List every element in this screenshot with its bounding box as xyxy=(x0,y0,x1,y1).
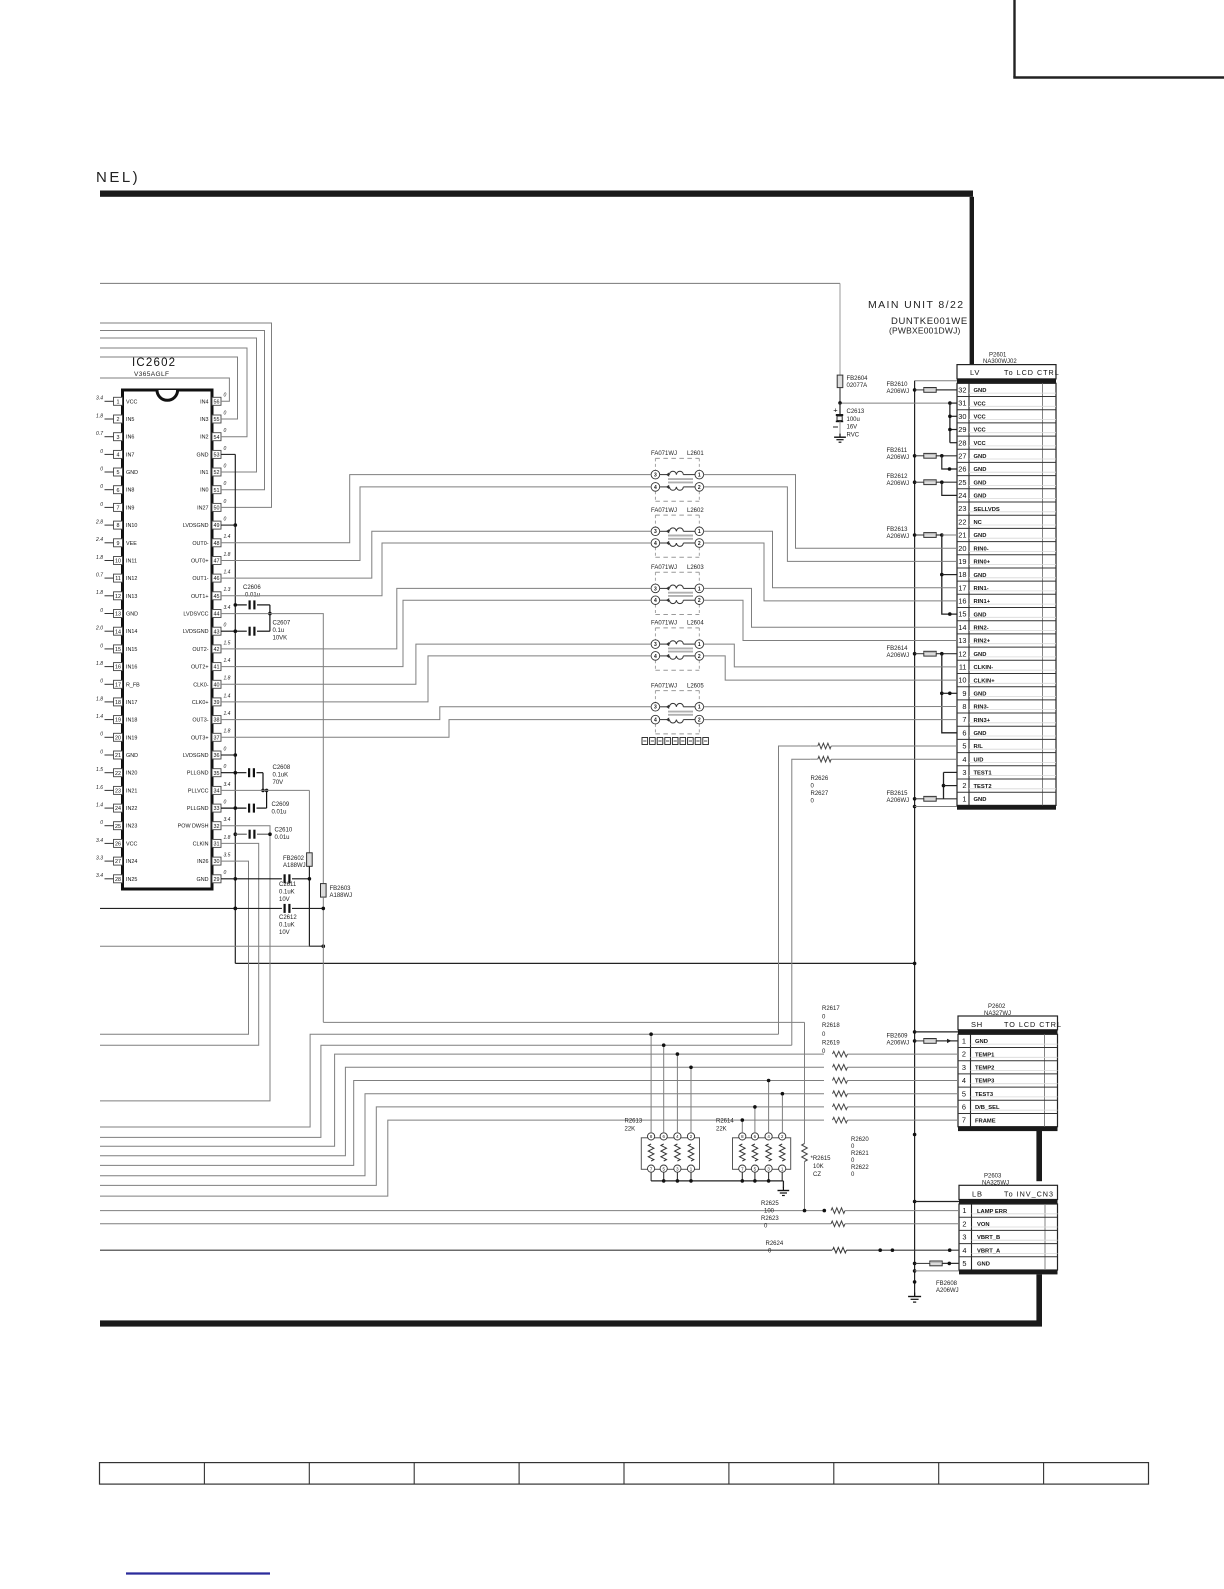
svg-text:10: 10 xyxy=(958,676,966,685)
svg-text:RIN3+: RIN3+ xyxy=(974,718,991,724)
svg-text:RIN2+: RIN2+ xyxy=(974,639,991,645)
svg-text:0: 0 xyxy=(224,463,227,469)
svg-text:TEST3: TEST3 xyxy=(975,1092,994,1098)
svg-text:10VK: 10VK xyxy=(273,636,288,642)
svg-text:RVC: RVC xyxy=(847,432,860,438)
svg-text:LVDSGND: LVDSGND xyxy=(183,629,209,635)
svg-text:24: 24 xyxy=(115,806,121,812)
svg-text:LVDSGND: LVDSGND xyxy=(183,523,209,529)
svg-text:L2603: L2603 xyxy=(687,565,704,571)
svg-text:44: 44 xyxy=(214,612,220,618)
svg-text:MAIN UNIT 8/22: MAIN UNIT 8/22 xyxy=(868,299,964,311)
svg-text:6: 6 xyxy=(962,1103,966,1112)
svg-text:2.0: 2.0 xyxy=(95,626,103,632)
svg-text:4: 4 xyxy=(654,541,657,547)
svg-text:R2621: R2621 xyxy=(851,1151,869,1157)
svg-text:GND: GND xyxy=(126,612,138,618)
svg-text:VCC: VCC xyxy=(974,428,987,434)
svg-text:7: 7 xyxy=(962,1116,966,1125)
svg-text:IN18: IN18 xyxy=(126,718,137,724)
svg-text:FB2612: FB2612 xyxy=(887,474,909,480)
svg-text:A206WJ: A206WJ xyxy=(887,798,910,804)
svg-text:4: 4 xyxy=(654,718,657,724)
svg-text:FB2610: FB2610 xyxy=(887,382,909,388)
svg-text:1.8: 1.8 xyxy=(96,555,103,561)
svg-text:IC2602: IC2602 xyxy=(132,357,176,369)
svg-text:70V: 70V xyxy=(273,780,284,786)
svg-text:2: 2 xyxy=(698,598,701,604)
svg-text:2: 2 xyxy=(962,1219,966,1228)
svg-text:IN25: IN25 xyxy=(126,877,137,883)
svg-text:NEL): NEL) xyxy=(96,169,140,186)
svg-text:IN0: IN0 xyxy=(200,488,208,494)
svg-text:27: 27 xyxy=(115,859,121,865)
svg-text:IN3: IN3 xyxy=(200,417,208,423)
svg-text:36: 36 xyxy=(214,753,220,759)
svg-text:IN17: IN17 xyxy=(126,700,137,706)
svg-text:14: 14 xyxy=(115,629,121,635)
svg-text:3.4: 3.4 xyxy=(96,873,103,879)
svg-text:NC: NC xyxy=(974,520,983,526)
svg-text:0: 0 xyxy=(100,449,103,455)
svg-text:IN6: IN6 xyxy=(126,435,134,441)
svg-text:C2609: C2609 xyxy=(272,802,290,808)
svg-text:4: 4 xyxy=(654,654,657,660)
svg-text:10V: 10V xyxy=(279,930,290,936)
svg-text:R2613: R2613 xyxy=(625,1119,643,1125)
svg-text:1: 1 xyxy=(698,586,701,592)
svg-text:LB: LB xyxy=(972,1189,983,1198)
svg-text:7: 7 xyxy=(962,715,966,724)
svg-text:IN14: IN14 xyxy=(126,629,137,635)
svg-text:OUT3-: OUT3- xyxy=(192,718,208,724)
svg-text:IN20: IN20 xyxy=(126,771,137,777)
svg-text:A188WJ: A188WJ xyxy=(283,863,306,869)
svg-text:RIN0-: RIN0- xyxy=(974,546,989,552)
svg-text:R2620: R2620 xyxy=(851,1137,869,1143)
svg-text:C2611: C2611 xyxy=(279,882,297,888)
svg-text:OUT0+: OUT0+ xyxy=(191,559,209,565)
svg-text:43: 43 xyxy=(214,629,220,635)
svg-text:2: 2 xyxy=(962,781,966,790)
svg-text:1.5: 1.5 xyxy=(224,640,231,646)
svg-text:PLLGND: PLLGND xyxy=(187,771,209,777)
svg-text:FB2611: FB2611 xyxy=(887,448,908,454)
svg-text:1.8: 1.8 xyxy=(224,676,231,682)
svg-text:38: 38 xyxy=(214,718,220,724)
svg-text:GND: GND xyxy=(974,494,987,500)
svg-text:FA071WJ: FA071WJ xyxy=(651,621,677,627)
svg-text:0: 0 xyxy=(100,820,103,826)
svg-text:TEST1: TEST1 xyxy=(974,771,993,777)
svg-text:0: 0 xyxy=(224,393,227,399)
svg-text:R2626: R2626 xyxy=(811,776,829,782)
svg-text:20: 20 xyxy=(958,544,966,553)
svg-text:53: 53 xyxy=(214,453,220,459)
svg-text:30: 30 xyxy=(958,412,966,421)
svg-text:GND: GND xyxy=(974,692,987,698)
svg-text:POW DWSH: POW DWSH xyxy=(178,824,209,830)
svg-text:0: 0 xyxy=(224,481,227,487)
svg-text:5: 5 xyxy=(962,1259,966,1268)
svg-text:VON: VON xyxy=(977,1222,990,1228)
svg-text:1.8: 1.8 xyxy=(224,835,231,841)
svg-text:54: 54 xyxy=(214,435,220,441)
svg-text:45: 45 xyxy=(214,594,220,600)
svg-text:0: 0 xyxy=(100,643,103,649)
svg-text:0.7: 0.7 xyxy=(96,431,103,437)
svg-text:0.1uK: 0.1uK xyxy=(279,890,295,896)
svg-text:FA071WJ: FA071WJ xyxy=(651,565,677,571)
svg-text:+: + xyxy=(833,406,838,415)
svg-text:1.8: 1.8 xyxy=(224,552,231,558)
svg-text:GND: GND xyxy=(974,612,987,618)
svg-text:46: 46 xyxy=(214,576,220,582)
svg-text:GND: GND xyxy=(974,480,987,486)
svg-text:25: 25 xyxy=(958,478,966,487)
svg-text:2: 2 xyxy=(698,541,701,547)
svg-text:1: 1 xyxy=(698,529,701,535)
svg-text:R2618: R2618 xyxy=(822,1023,840,1029)
svg-text:0: 0 xyxy=(224,446,227,452)
svg-text:L2601: L2601 xyxy=(687,451,704,457)
svg-text:3: 3 xyxy=(962,1233,966,1242)
svg-text:3.4: 3.4 xyxy=(96,396,103,402)
svg-text:25: 25 xyxy=(115,824,121,830)
svg-text:C2608: C2608 xyxy=(273,765,291,771)
svg-text:FB2615: FB2615 xyxy=(887,791,909,797)
svg-text:39: 39 xyxy=(214,700,220,706)
svg-text:IN9: IN9 xyxy=(126,505,134,511)
svg-text:IN19: IN19 xyxy=(126,735,137,741)
svg-text:24: 24 xyxy=(958,491,966,500)
svg-text:0: 0 xyxy=(224,623,227,629)
svg-text:0: 0 xyxy=(224,800,227,806)
svg-text:VBRT_B: VBRT_B xyxy=(977,1235,1000,1241)
svg-text:C2610: C2610 xyxy=(275,828,293,834)
svg-text:4: 4 xyxy=(962,1076,966,1085)
svg-text:A206WJ: A206WJ xyxy=(887,534,910,540)
svg-text:3.5: 3.5 xyxy=(224,853,231,859)
svg-text:0.1uK: 0.1uK xyxy=(273,773,289,779)
svg-text:*R2615: *R2615 xyxy=(811,1156,832,1162)
svg-text:48: 48 xyxy=(214,541,220,547)
svg-text:23: 23 xyxy=(958,504,966,513)
svg-text:L2605: L2605 xyxy=(687,683,704,689)
svg-text:0.1uK: 0.1uK xyxy=(279,923,295,929)
svg-text:1.3: 1.3 xyxy=(224,587,231,593)
svg-text:GND: GND xyxy=(974,454,987,460)
svg-text:0: 0 xyxy=(224,746,227,752)
svg-text:02077A: 02077A xyxy=(847,383,868,389)
svg-text:C2612: C2612 xyxy=(279,915,297,921)
svg-text:CLKIN+: CLKIN+ xyxy=(974,678,996,684)
svg-text:IN7: IN7 xyxy=(126,452,134,458)
svg-text:IN8: IN8 xyxy=(126,488,134,494)
svg-text:IN13: IN13 xyxy=(126,594,137,600)
svg-text:To INV_CN3: To INV_CN3 xyxy=(1004,1189,1054,1198)
svg-text:6: 6 xyxy=(962,728,966,737)
svg-text:20: 20 xyxy=(115,735,121,741)
svg-text:P2603: P2603 xyxy=(984,1174,1002,1180)
svg-text:34: 34 xyxy=(214,789,220,795)
svg-text:17: 17 xyxy=(958,583,966,592)
svg-text:P2601: P2601 xyxy=(989,353,1007,359)
svg-text:SELLVDS: SELLVDS xyxy=(974,507,1000,513)
svg-text:R2617: R2617 xyxy=(822,1006,840,1012)
svg-text:5: 5 xyxy=(962,742,966,751)
svg-text:GND: GND xyxy=(974,573,987,579)
svg-text:1.4: 1.4 xyxy=(224,693,231,699)
svg-text:40: 40 xyxy=(214,682,220,688)
svg-text:7: 7 xyxy=(117,506,120,512)
svg-text:VBRT_A: VBRT_A xyxy=(977,1248,1001,1254)
svg-text:5: 5 xyxy=(117,470,120,476)
svg-text:FRAME: FRAME xyxy=(975,1118,996,1124)
svg-text:R2624: R2624 xyxy=(766,1241,784,1247)
svg-text:L2602: L2602 xyxy=(687,508,704,514)
svg-text:TEMP2: TEMP2 xyxy=(975,1066,994,1072)
svg-text:VEE: VEE xyxy=(126,541,137,547)
svg-text:LV: LV xyxy=(970,368,980,377)
svg-text:9: 9 xyxy=(962,689,966,698)
svg-text:9: 9 xyxy=(117,541,120,547)
svg-text:VCC: VCC xyxy=(126,399,137,405)
svg-text:A206WJ: A206WJ xyxy=(887,1041,910,1047)
svg-text:U/D: U/D xyxy=(974,757,984,763)
svg-text:OUT0-: OUT0- xyxy=(192,541,208,547)
svg-text:L2604: L2604 xyxy=(687,621,704,627)
svg-text:2: 2 xyxy=(698,485,701,491)
svg-text:GND: GND xyxy=(977,1262,990,1268)
svg-text:OUT3+: OUT3+ xyxy=(191,735,209,741)
svg-text:PLLVCC: PLLVCC xyxy=(188,788,209,794)
svg-text:FB2614: FB2614 xyxy=(887,646,909,652)
svg-text:14: 14 xyxy=(958,623,966,632)
svg-text:18: 18 xyxy=(958,570,966,579)
svg-text:1: 1 xyxy=(962,794,966,803)
svg-text:1.8: 1.8 xyxy=(224,729,231,735)
svg-text:4: 4 xyxy=(117,453,120,459)
svg-text:1: 1 xyxy=(117,399,120,405)
svg-text:11: 11 xyxy=(959,663,967,672)
svg-text:6: 6 xyxy=(117,488,120,494)
svg-text:R2614: R2614 xyxy=(716,1119,734,1125)
svg-text:0: 0 xyxy=(100,466,103,472)
svg-text:IN5: IN5 xyxy=(126,417,134,423)
svg-text:0.01u: 0.01u xyxy=(275,835,290,841)
svg-text:FA071WJ: FA071WJ xyxy=(651,451,677,457)
svg-text:27: 27 xyxy=(958,451,966,460)
svg-text:1.4: 1.4 xyxy=(224,570,231,576)
svg-text:15: 15 xyxy=(958,610,966,619)
svg-text:A206WJ: A206WJ xyxy=(887,653,910,659)
svg-text:OUT2+: OUT2+ xyxy=(191,665,209,671)
svg-text:55: 55 xyxy=(214,417,220,423)
svg-text:3.4: 3.4 xyxy=(96,838,103,844)
svg-text:VCC: VCC xyxy=(126,841,137,847)
svg-text:LAMP ERR: LAMP ERR xyxy=(977,1209,1008,1215)
svg-text:3: 3 xyxy=(654,473,657,479)
svg-text:FB2603: FB2603 xyxy=(330,886,352,892)
svg-text:0: 0 xyxy=(224,870,227,876)
svg-text:0.1u: 0.1u xyxy=(273,628,285,634)
svg-text:R_FB: R_FB xyxy=(126,682,140,688)
svg-text:32: 32 xyxy=(214,824,220,830)
svg-text:IN10: IN10 xyxy=(126,523,137,529)
svg-text:2: 2 xyxy=(698,654,701,660)
svg-text:A206WJ: A206WJ xyxy=(936,1288,959,1294)
svg-text:3: 3 xyxy=(654,642,657,648)
svg-text:18: 18 xyxy=(115,700,121,706)
svg-text:VCC: VCC xyxy=(974,441,987,447)
svg-text:PLLGND: PLLGND xyxy=(187,806,209,812)
svg-text:IN21: IN21 xyxy=(126,788,137,794)
svg-text:R2625: R2625 xyxy=(761,1201,779,1207)
svg-text:GND: GND xyxy=(975,1039,988,1045)
svg-text:GND: GND xyxy=(974,652,987,658)
svg-text:17: 17 xyxy=(115,682,121,688)
svg-text:IN15: IN15 xyxy=(126,647,137,653)
svg-text:0: 0 xyxy=(100,502,103,508)
svg-text:19: 19 xyxy=(958,557,966,566)
svg-text:GND: GND xyxy=(197,877,209,883)
svg-text:VCC: VCC xyxy=(974,415,987,421)
svg-text:3.3: 3.3 xyxy=(96,856,103,862)
svg-text:56: 56 xyxy=(214,399,220,405)
svg-text:29: 29 xyxy=(214,877,220,883)
svg-text:23: 23 xyxy=(115,789,121,795)
svg-text:FB2602: FB2602 xyxy=(283,856,305,862)
svg-text:IN1: IN1 xyxy=(200,470,208,476)
svg-text:CZ: CZ xyxy=(813,1172,821,1178)
svg-text:0: 0 xyxy=(100,484,103,490)
svg-text:42: 42 xyxy=(214,647,220,653)
svg-text:D/B_SEL: D/B_SEL xyxy=(975,1105,1000,1111)
svg-text:SH: SH xyxy=(971,1020,983,1029)
svg-text:TO LCD CTRL: TO LCD CTRL xyxy=(1004,1020,1062,1029)
svg-text:GND: GND xyxy=(974,467,987,473)
svg-text:FA071WJ: FA071WJ xyxy=(651,508,677,514)
svg-text:19: 19 xyxy=(115,718,121,724)
svg-text:IN11: IN11 xyxy=(126,559,137,565)
svg-text:35: 35 xyxy=(214,771,220,777)
svg-text:GND: GND xyxy=(974,533,987,539)
svg-text:2: 2 xyxy=(962,1050,966,1059)
svg-text:4: 4 xyxy=(654,485,657,491)
svg-text:0: 0 xyxy=(100,608,103,614)
svg-text:26: 26 xyxy=(958,465,966,474)
svg-text:CLK0+: CLK0+ xyxy=(192,700,209,706)
svg-text:FB2613: FB2613 xyxy=(887,527,909,533)
svg-text:CLKIN: CLKIN xyxy=(193,841,209,847)
svg-text:10: 10 xyxy=(115,559,121,565)
svg-text:0: 0 xyxy=(224,428,227,434)
svg-text:FB2604: FB2604 xyxy=(847,376,869,382)
svg-text:3: 3 xyxy=(117,435,120,441)
svg-text:FB2609: FB2609 xyxy=(887,1034,909,1040)
svg-text:CLK0-: CLK0- xyxy=(193,682,208,688)
svg-text:0: 0 xyxy=(224,499,227,505)
svg-text:RIN1+: RIN1+ xyxy=(974,599,991,605)
svg-text:47: 47 xyxy=(214,559,220,565)
svg-text:1.4: 1.4 xyxy=(96,714,103,720)
svg-text:FA071WJ: FA071WJ xyxy=(651,683,677,689)
svg-text:GND: GND xyxy=(974,388,987,394)
svg-text:1.6: 1.6 xyxy=(96,785,103,791)
svg-text:1.4: 1.4 xyxy=(224,658,231,664)
svg-text:TEMP1: TEMP1 xyxy=(975,1052,995,1058)
svg-text:2: 2 xyxy=(117,417,120,423)
svg-text:R2622: R2622 xyxy=(851,1165,869,1171)
svg-text:GND: GND xyxy=(126,470,138,476)
svg-text:28: 28 xyxy=(958,438,966,447)
svg-text:0: 0 xyxy=(224,764,227,770)
svg-text:RIN1-: RIN1- xyxy=(974,586,989,592)
svg-text:13: 13 xyxy=(115,612,121,618)
svg-text:IN2: IN2 xyxy=(200,435,208,441)
svg-text:10V: 10V xyxy=(279,897,290,903)
svg-text:OUT1+: OUT1+ xyxy=(191,594,209,600)
svg-text:0: 0 xyxy=(224,410,227,416)
svg-text:0: 0 xyxy=(100,732,103,738)
svg-text:RIN0+: RIN0+ xyxy=(974,560,991,566)
svg-text:0.01u: 0.01u xyxy=(272,810,287,816)
svg-text:1.5: 1.5 xyxy=(96,767,103,773)
svg-text:3.4: 3.4 xyxy=(224,817,231,823)
svg-text:10K: 10K xyxy=(813,1164,824,1170)
svg-text:8: 8 xyxy=(117,523,120,529)
svg-text:3.4: 3.4 xyxy=(224,782,231,788)
svg-text:V365AGLF: V365AGLF xyxy=(134,371,169,378)
svg-text:51: 51 xyxy=(214,488,220,494)
svg-text:16: 16 xyxy=(115,665,121,671)
svg-text:26: 26 xyxy=(115,842,121,848)
svg-text:1.8: 1.8 xyxy=(96,696,103,702)
svg-text:TEST2: TEST2 xyxy=(974,784,992,790)
svg-text:OUT1-: OUT1- xyxy=(192,576,208,582)
svg-text:1: 1 xyxy=(698,473,701,479)
svg-text:33: 33 xyxy=(214,806,220,812)
svg-text:100u: 100u xyxy=(847,417,860,423)
svg-text:1.8: 1.8 xyxy=(96,413,103,419)
svg-text:11: 11 xyxy=(115,576,121,582)
svg-text:TEMP3: TEMP3 xyxy=(975,1079,995,1085)
svg-text:21: 21 xyxy=(115,753,121,759)
svg-text:1.4: 1.4 xyxy=(96,803,103,809)
svg-text:1: 1 xyxy=(962,1037,966,1046)
svg-text:1.8: 1.8 xyxy=(96,590,103,596)
svg-text:28: 28 xyxy=(115,877,121,883)
svg-text:12: 12 xyxy=(115,594,121,600)
svg-text:VCC: VCC xyxy=(974,401,987,407)
svg-text:4: 4 xyxy=(654,598,657,604)
svg-text:C2613: C2613 xyxy=(847,409,865,415)
svg-text:2: 2 xyxy=(698,718,701,724)
svg-text:A188WJ: A188WJ xyxy=(330,893,353,899)
svg-text:IN23: IN23 xyxy=(126,824,137,830)
svg-text:12: 12 xyxy=(958,649,966,658)
svg-text:16V: 16V xyxy=(847,425,858,431)
svg-text:A206WJ: A206WJ xyxy=(887,481,910,487)
svg-text:3: 3 xyxy=(962,768,966,777)
svg-text:31: 31 xyxy=(958,399,966,408)
svg-text:52: 52 xyxy=(214,470,220,476)
svg-text:2.8: 2.8 xyxy=(95,520,103,526)
svg-text:13: 13 xyxy=(958,636,966,645)
svg-text:GND: GND xyxy=(974,731,987,737)
svg-text:4: 4 xyxy=(962,755,966,764)
